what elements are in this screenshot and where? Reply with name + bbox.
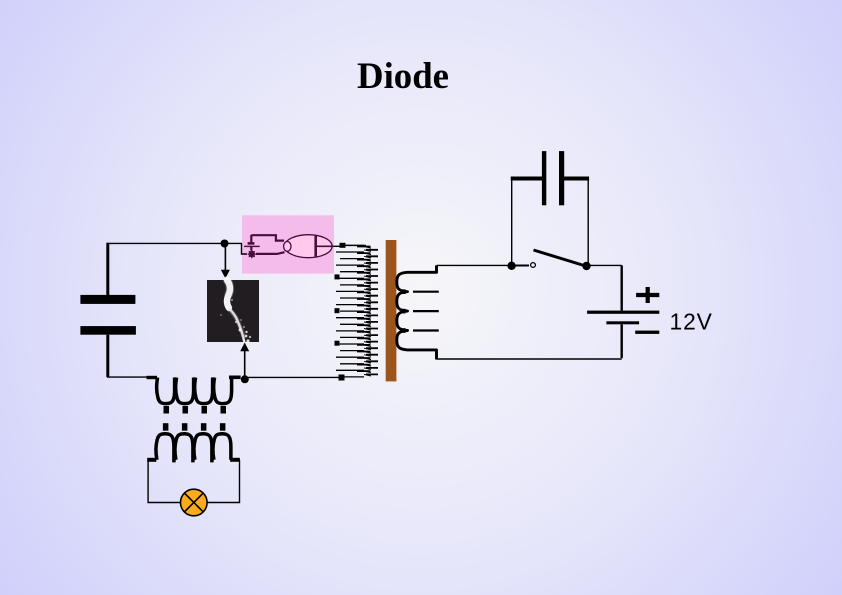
wire switch right to battery corner xyxy=(590,264,622,266)
capacitor C2 left plate xyxy=(542,151,546,205)
svg-text:Diode: Diode xyxy=(357,55,449,96)
capacitor C1 top plate xyxy=(80,295,135,304)
capacitor C2 right lead xyxy=(564,177,589,181)
wire bottom right horizontal xyxy=(437,358,622,360)
wire capacitor C2 left vertical xyxy=(511,180,513,263)
tube filament bottom rail xyxy=(256,252,285,254)
switch S1 arm xyxy=(534,250,585,266)
wire plate lead to primary xyxy=(317,245,342,247)
filament battery lead xyxy=(250,235,252,242)
battery B1 short plate xyxy=(606,321,639,324)
wire into tube cathode xyxy=(242,243,248,254)
tube U1 plate xyxy=(314,236,317,257)
wire battery top vertical xyxy=(621,265,623,310)
capacitor C2 left lead xyxy=(511,177,542,181)
diode tube highlight box xyxy=(242,215,334,273)
coil L1 secondary (top coil) xyxy=(147,376,241,414)
wire battery bottom vertical xyxy=(621,324,623,358)
wire bottom to transformer xyxy=(248,376,339,378)
tube cathode blob xyxy=(247,250,256,259)
wire lamp right xyxy=(207,460,240,503)
spark gap top arrow xyxy=(221,246,230,279)
wire capacitor C2 right vertical xyxy=(587,180,589,263)
wire lamp left xyxy=(148,460,181,503)
node B junction bottom xyxy=(241,375,249,383)
spark gap bottom arrow xyxy=(240,343,249,379)
node A junction top-left xyxy=(221,240,229,248)
node D switch right xyxy=(582,262,590,270)
wire capacitor C1 bottom lead xyxy=(106,335,109,377)
wire stub to contact xyxy=(515,265,529,267)
wire top-left horizontal xyxy=(108,242,243,244)
tube filament top rail xyxy=(251,235,284,240)
filament battery plate thin xyxy=(244,245,260,247)
wire plate lead inside xyxy=(317,245,334,247)
transformer primary L3 xyxy=(335,243,379,377)
tube U1 filament bead xyxy=(284,242,291,252)
battery minus sign xyxy=(635,331,659,334)
wire secondary top to switch xyxy=(437,264,509,266)
filament battery bottom lead xyxy=(250,246,252,250)
wire capacitor C1 top lead xyxy=(106,243,109,295)
battery B1 long plate xyxy=(587,311,659,314)
transformer core xyxy=(386,240,397,381)
svg-text:12V: 12V xyxy=(670,309,713,335)
terminal square bottom xyxy=(339,375,345,381)
transformer secondary L4 xyxy=(397,265,439,359)
node C switch left xyxy=(507,262,515,270)
capacitor C2 right plate xyxy=(559,151,564,205)
tube U1 envelope xyxy=(285,235,333,258)
filament battery plate thick xyxy=(248,242,255,245)
lamp DS1 xyxy=(181,489,208,516)
capacitor C1 bottom plate xyxy=(80,326,135,335)
coil L2 pickup (lower coil) xyxy=(147,423,240,462)
spark photo box xyxy=(207,280,259,343)
switch S1 contact circle xyxy=(531,263,536,268)
battery plus sign xyxy=(636,287,659,303)
wire bottom-left horizontal xyxy=(107,376,147,378)
